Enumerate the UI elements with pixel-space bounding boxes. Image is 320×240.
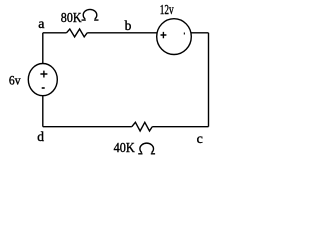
wire R1 to 12v source bbox=[87, 32, 157, 34]
ohm symbol for R2 bbox=[138, 143, 155, 154]
minus sign of 6v source bbox=[42, 87, 45, 89]
svg-text:d: d bbox=[37, 129, 44, 144]
plus sign of 12v source bbox=[161, 32, 167, 38]
voltage source U2 12v circle bbox=[157, 19, 192, 55]
svg-text:a: a bbox=[38, 17, 45, 32]
wire left vertical upper (a to 6v) bbox=[42, 33, 44, 64]
ohm symbol for R1 bbox=[82, 9, 99, 20]
svg-text:b: b bbox=[125, 18, 132, 33]
wire 12v source to top-right corner bbox=[191, 32, 209, 34]
svg-text:c: c bbox=[197, 132, 203, 147]
svg-text:12v: 12v bbox=[160, 3, 174, 18]
wire left vertical lower (6v to d) bbox=[42, 96, 44, 127]
minus sign of 12v source bbox=[184, 33, 185, 35]
resistor R2 40K zigzag bbox=[132, 122, 152, 131]
plus sign of 6v source bbox=[40, 71, 47, 78]
wire bottom-left segment R2 to d bbox=[43, 126, 132, 128]
svg-text:80K: 80K bbox=[61, 11, 82, 26]
wire right vertical bbox=[208, 33, 210, 127]
svg-text:6v: 6v bbox=[9, 74, 21, 88]
resistor R1 80K zigzag bbox=[67, 29, 88, 37]
voltage source U1 6v circle bbox=[28, 64, 57, 96]
wire bottom-right segment c to R2 bbox=[152, 126, 208, 128]
wire top-left segment a to R1 bbox=[43, 32, 67, 34]
svg-text:40K: 40K bbox=[114, 141, 135, 156]
